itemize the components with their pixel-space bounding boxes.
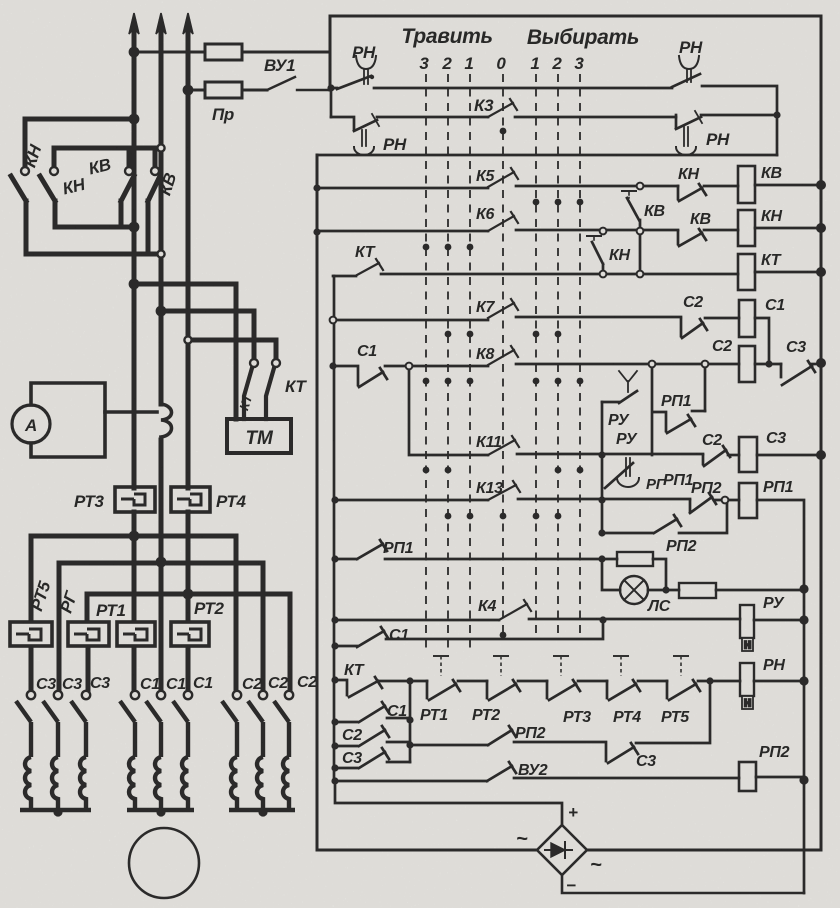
contact RN button 1	[337, 56, 376, 89]
wire rung B right	[701, 114, 777, 117]
wire rung K5	[317, 187, 488, 190]
contact K4	[499, 600, 531, 620]
contact RP1 make	[653, 411, 705, 433]
wire KH1 down	[24, 201, 29, 254]
coil RN	[740, 663, 754, 709]
wire rung B	[377, 116, 488, 119]
wire KV1 down	[119, 201, 124, 227]
wire L1 tail to C1-1	[132, 647, 137, 691]
contact C1 aux	[335, 702, 410, 722]
wire branch3 L3 to KT2	[188, 340, 276, 359]
wire to C3 coil	[728, 454, 739, 457]
resistor R2	[679, 583, 716, 598]
thermal element RG	[68, 622, 109, 646]
wire bus lower KH1-KV2-L2	[26, 252, 157, 257]
wire C2 coil out	[755, 363, 781, 366]
labels bridge	[516, 803, 602, 895]
resistor bank C3 (3 units)	[16, 701, 91, 810]
wire fuse1 link and riser	[134, 16, 330, 90]
wire bus lower KH2-KV1-L1	[55, 225, 134, 230]
wire	[578, 680, 607, 683]
diode symbol	[551, 843, 565, 857]
supply arrow line L3	[183, 13, 193, 488]
plunger marks RT1..RT5	[433, 656, 449, 676]
contact RT2	[487, 680, 520, 700]
fuse FU1	[205, 44, 242, 60]
contact KT break	[335, 677, 382, 697]
wire to RN coil	[698, 680, 740, 683]
wire VU2 to RP2 coil	[514, 777, 739, 780]
wire stub KV2	[153, 150, 158, 167]
wire plus feeder to bridge	[335, 781, 562, 825]
coil C1	[739, 300, 755, 337]
relay release RN 2	[676, 111, 702, 155]
wire bus3	[87, 594, 290, 621]
wire rung K8	[385, 365, 488, 368]
contact C3 drop	[608, 743, 638, 763]
coil C3	[739, 437, 757, 472]
labels RP1 rung block	[383, 540, 785, 644]
thermal relay RT3	[115, 487, 155, 512]
contact KV2	[148, 176, 160, 201]
contact RU with release RG	[602, 455, 639, 533]
contact RT5	[667, 680, 700, 700]
wire C3 coil to edge	[757, 454, 821, 457]
wire bus1	[31, 536, 236, 621]
wire rung K4 right	[529, 618, 740, 621]
wire bus3 right leg	[288, 594, 293, 691]
switch VU1	[267, 77, 331, 90]
ammeter loop wires	[31, 383, 157, 457]
contact C2 break (C1 coil rung)	[681, 319, 707, 338]
wire bus1 leg to C2-1	[234, 536, 239, 691]
wire bridge minus	[562, 875, 804, 893]
wire KH coil to edge	[755, 227, 821, 230]
contact C1 make	[335, 627, 388, 647]
wire C1 rung to K4	[386, 620, 603, 639]
contact K13	[488, 481, 520, 500]
resistor bank C2 (3 units)	[222, 701, 295, 810]
junction dots control	[313, 84, 826, 784]
wire L3 tail to C1-3	[186, 647, 191, 691]
contact RP2 make	[488, 726, 516, 745]
wire lamp to resistor R2	[648, 589, 679, 592]
wire frame right edge	[820, 16, 823, 849]
contact K11	[488, 436, 519, 455]
labels RN rung	[344, 657, 785, 726]
contact KT brake 2	[266, 368, 274, 419]
contact KH aux (holding)	[587, 236, 603, 275]
wire K11 rung left leg	[409, 366, 488, 455]
bridge VD diamond	[537, 825, 587, 875]
wire rung A	[331, 87, 672, 90]
supply arrow line L1	[129, 13, 139, 488]
contact C1 break (K8 rung)	[333, 366, 387, 387]
controller headers	[401, 25, 639, 49]
wire rung C	[317, 154, 777, 157]
wire resistor to lamp node	[653, 559, 666, 590]
junction open circles control	[330, 183, 729, 504]
wire rung A to B drop	[330, 88, 333, 117]
wire rung KT	[381, 273, 738, 276]
wire aux vertical x410	[409, 681, 412, 762]
wire rung K4	[335, 619, 499, 622]
wire frame left edge	[316, 155, 319, 850]
labels K5/K6/KT block	[355, 165, 783, 269]
wire bus B to KH2	[54, 148, 161, 167]
wire frame top edge	[330, 15, 821, 18]
wire to KH coil	[704, 229, 738, 232]
labels RN top	[352, 38, 730, 154]
thermal element RT1	[117, 622, 155, 646]
contact C2 break (C3 coil rung)	[703, 446, 730, 466]
wire bus1 tail	[29, 647, 34, 691]
wire rung K7	[333, 319, 488, 322]
wire rung K6 right	[516, 229, 678, 232]
wire rung K13	[335, 499, 488, 502]
wire L3 through RT4 to RT2	[186, 512, 191, 621]
wire RP2 to C3	[514, 742, 606, 761]
wire RP1 coil to minus rail	[757, 500, 804, 893]
contact C3 aux	[335, 748, 410, 768]
controller position numbers	[419, 54, 584, 73]
coil RP1	[739, 483, 757, 518]
wire	[638, 680, 667, 683]
wire	[380, 680, 427, 683]
wire KH2 down	[53, 201, 58, 227]
wire rung K11	[517, 453, 703, 456]
shunt on line L2	[161, 404, 172, 437]
wire KV2 down	[146, 201, 151, 254]
contact KH2	[40, 176, 55, 201]
wire C1 coil drop	[755, 318, 769, 364]
junction dots power	[53, 47, 267, 817]
labels RU/RP1	[608, 393, 692, 429]
wire stub KV1	[127, 150, 132, 167]
contact RT1	[427, 680, 460, 700]
wire RN coil to minus rail	[754, 680, 804, 683]
wire KT coil to edge	[755, 271, 821, 274]
thermal element RT2	[171, 622, 209, 646]
wire bus A to KH1	[25, 119, 134, 167]
wire rung KT left	[333, 275, 356, 278]
contact K5	[488, 168, 518, 187]
ammeter A1	[12, 405, 50, 443]
coil RP2	[739, 762, 756, 791]
labels K11/K13	[476, 430, 794, 555]
thermal relay RT4	[171, 487, 210, 512]
contact KH break (KV coil rung)	[678, 184, 706, 201]
labels K7/K8	[357, 294, 806, 363]
master controller dashed lines	[426, 74, 580, 648]
contact RU make	[602, 371, 637, 455]
wire bus2	[59, 563, 263, 691]
resistor bank C1 (3 units)	[120, 701, 194, 810]
contact RP2 break (RP1 coil rung)	[690, 493, 716, 513]
contact K3	[488, 99, 517, 117]
wire to KV coil	[704, 185, 738, 188]
switch VU2	[487, 762, 516, 781]
resistor R1	[617, 552, 653, 566]
wire	[458, 680, 487, 683]
wire drop K8 (x705)	[704, 364, 707, 411]
contact RT4	[607, 680, 640, 700]
motor M	[129, 828, 199, 898]
contact C3 break (to edge)	[781, 361, 815, 385]
wire rung K6	[317, 230, 488, 233]
wire rung B mid	[515, 116, 676, 119]
contact RP2 parallel branch	[602, 500, 727, 533]
wire fuse2 link	[188, 89, 267, 92]
wire bus3 tail	[86, 647, 91, 691]
contact K8	[488, 346, 518, 365]
wire rung A right corner	[702, 86, 777, 155]
brake magnet TM	[227, 419, 291, 453]
coil C2	[739, 346, 755, 382]
wire rung K8 right	[516, 363, 739, 366]
coil KV	[738, 166, 755, 203]
fuse Pr	[205, 82, 242, 98]
contact K6	[488, 212, 518, 231]
wire rung K7 right	[516, 316, 681, 319]
wire KV coil to edge	[755, 184, 821, 187]
contact RN button 2	[672, 56, 700, 87]
supply arrow line L2	[156, 13, 166, 692]
wire inner-left bus	[333, 276, 336, 781]
contact C2 aux	[335, 726, 488, 746]
wire rung K13 right	[518, 498, 690, 501]
thermal element RT5	[10, 622, 52, 646]
terminal circles row	[21, 144, 293, 699]
paper texture	[0, 0, 1, 1]
contact RT3	[547, 680, 580, 700]
coil KT	[738, 254, 755, 290]
wire	[518, 680, 547, 683]
coil RU	[740, 605, 754, 651]
wire RU coil to minus rail	[754, 619, 804, 622]
power section labels	[20, 56, 317, 693]
contact KV1	[121, 176, 134, 201]
wire to RP1 coil	[714, 499, 739, 502]
wire lamp branch	[602, 559, 620, 590]
wire L1 through RT3 to RT1	[132, 512, 137, 621]
wire rung VU2	[335, 780, 487, 783]
wire RP2 coil to minus rail	[756, 776, 804, 779]
lamp LS	[620, 576, 648, 604]
wire to RN rung riser	[636, 681, 710, 743]
wire rung RP1	[385, 558, 617, 561]
wire branch2 L2 to KT1	[161, 311, 254, 359]
wire branch1 L1 to TM	[134, 284, 236, 419]
relay release RN 1	[331, 114, 379, 155]
wire to C1 coil	[705, 317, 739, 320]
wire drop K8 to K11 (x652)	[651, 364, 654, 455]
coil KH	[738, 210, 755, 246]
wire R2 to minus rail	[716, 589, 804, 592]
contact KV aux (holding)	[622, 191, 640, 275]
wire frame bottom edge AC	[317, 849, 821, 852]
wire rung K5 right	[516, 185, 678, 188]
labels bottom left	[342, 703, 790, 779]
contact KT brake 1	[244, 368, 252, 419]
contact RP1 make (rung)	[335, 540, 387, 559]
contact KV break (KH coil rung)	[678, 229, 706, 246]
contact KH1	[11, 176, 26, 201]
controller position dots	[500, 128, 507, 135]
wire bus2 right leg	[261, 563, 266, 691]
contact KT	[357, 259, 383, 275]
contact K7	[488, 299, 518, 318]
